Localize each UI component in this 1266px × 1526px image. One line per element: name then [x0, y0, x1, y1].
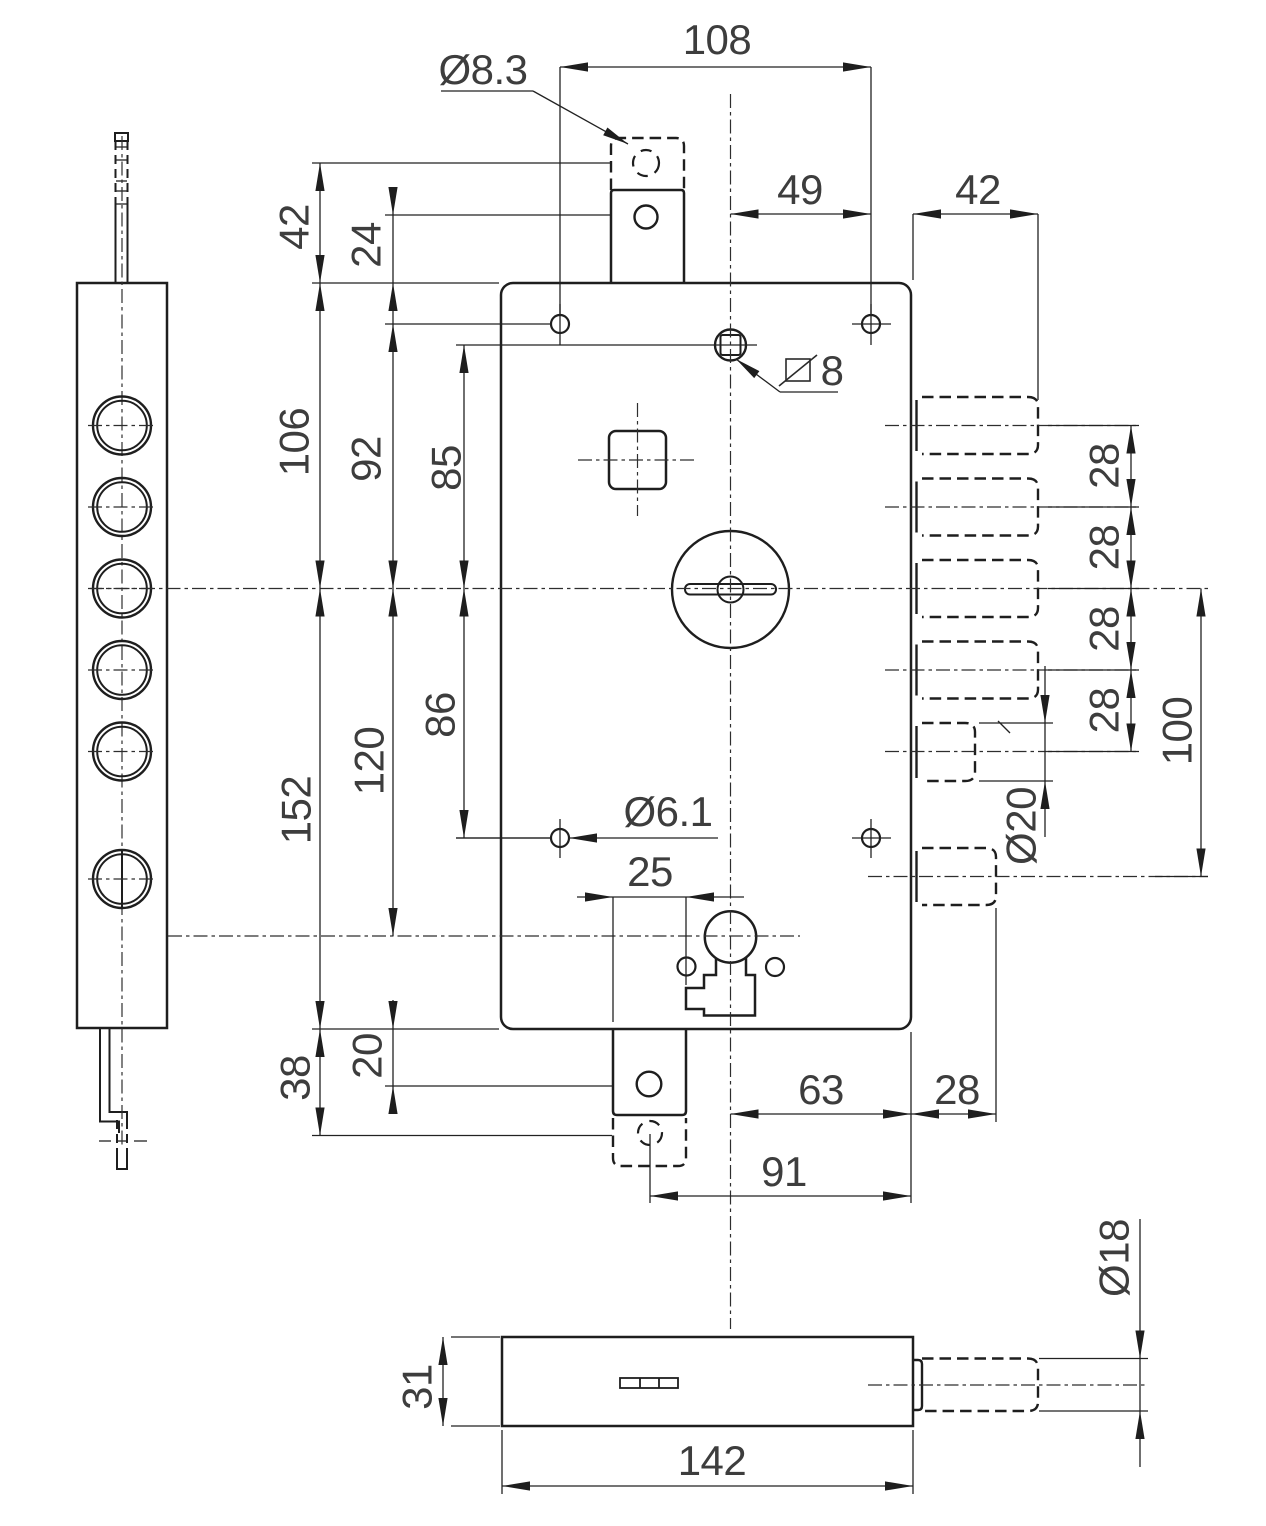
faceplate bolt circle 1: [93, 397, 151, 455]
svg-text:28: 28: [1081, 688, 1128, 734]
faceplate top rod cap: [115, 133, 128, 141]
svg-text:31: 31: [394, 1364, 441, 1410]
dimension 28 column: dimension line: [1130, 426, 1132, 752]
screw hole bottom-left: [551, 829, 569, 847]
bottom view bolt rod extension lines: [1039, 1358, 1148, 1360]
dimension 20: extension line: [385, 1085, 612, 1087]
bolt 5 chamfer tick: [998, 721, 1010, 733]
dimension 24/92/120 dimension line: [392, 187, 394, 936]
faceplate bottom rod crosshair: [99, 1140, 111, 1142]
label square 8 symbol: [786, 359, 810, 381]
faceplate bolt circle 5 crosshair: [88, 751, 156, 753]
dimension 86: extension line: [456, 837, 551, 839]
dimension 49: dimension line: [731, 213, 872, 215]
spindle follower hole: [715, 330, 746, 361]
faceplate side view plate: [77, 283, 167, 1028]
faceplate bolt circle 1 crosshair: [88, 425, 156, 427]
faceplate bolt circle 5: [93, 723, 151, 781]
faceplate centerline vertical: [121, 136, 123, 1146]
svg-text:49: 49: [777, 166, 823, 213]
svg-text:152: 152: [273, 776, 320, 845]
dimension 28 bottom: dimension line: [911, 1113, 996, 1115]
keyhole side hole right: [766, 958, 784, 976]
hub center circle: [718, 577, 744, 603]
svg-text:Ø20: Ø20: [998, 787, 1045, 865]
dimension 38: extension line and arrow: [312, 1135, 612, 1137]
dimension 152: arrows at body bottom: [315, 1001, 324, 1029]
faceplate bolt circle 4 crosshair: [88, 669, 156, 671]
bolt 3 (hidden): [922, 560, 1038, 617]
top tab hole: [635, 206, 658, 229]
dimension 142: dimension line: [502, 1485, 913, 1487]
svg-text:100: 100: [1154, 697, 1201, 766]
faceplate bottom rod end cap: [117, 1156, 127, 1169]
lock body outline: [501, 283, 911, 1029]
faceplate top rod solid part: [115, 199, 117, 283]
bolt 2 (hidden) visible edge: [915, 482, 917, 533]
svg-text:42: 42: [271, 204, 318, 250]
bottom tab hole: [637, 1072, 662, 1097]
dimension 42 left: extension lines: [312, 162, 610, 164]
dimension diameter 20: dimension line with outside arrows: [1044, 666, 1046, 837]
latch bolt bottom (hidden) visible edge: [915, 851, 917, 902]
svg-text:Ø8.3: Ø8.3: [438, 46, 527, 93]
bolt 1 (hidden): [922, 397, 1038, 454]
euro cylinder keyhole stem: [686, 958, 755, 1016]
bolt 5 short (hidden): [922, 723, 975, 781]
svg-text:Ø18: Ø18: [1091, 1219, 1138, 1297]
euro cylinder keyhole circle: [705, 911, 756, 962]
svg-text:85: 85: [423, 445, 470, 491]
screw hole top-right: [862, 315, 880, 333]
svg-text:20: 20: [344, 1033, 391, 1079]
svg-text:91: 91: [761, 1148, 807, 1195]
dimension 42 right: extension line: [1037, 214, 1039, 400]
dimension 25: dimension line with outside arrows: [577, 896, 744, 898]
svg-text:142: 142: [678, 1437, 747, 1484]
svg-text:Ø6.1: Ø6.1: [623, 788, 712, 835]
faceplate bolt circle 4: [93, 641, 151, 699]
svg-text:28: 28: [1081, 525, 1128, 571]
dimension 120: bottom arrow: [388, 908, 397, 936]
bottom tab hidden hole: [638, 1121, 662, 1145]
bottom view bolt hidden body: [922, 1359, 1038, 1412]
keyhole horizontal centerline: [168, 935, 800, 937]
bolt 5 centerline: [885, 751, 1139, 753]
dimension 31: dimension line: [442, 1337, 444, 1426]
bolt 4 centerline: [885, 669, 1139, 671]
bolt 1 centerline: [885, 425, 1139, 427]
bottom view centerline: [868, 1384, 1145, 1386]
dimension 63: dimension line: [731, 1113, 912, 1115]
latch bolt centerline: [868, 876, 1208, 878]
bolt 2 (hidden): [922, 479, 1038, 536]
dimension 63/28: extension lines: [910, 1032, 912, 1203]
faceplate top rod hidden segments: [115, 141, 117, 199]
bolt 3 (hidden) visible edge: [915, 563, 917, 614]
bottom view latch slot: [620, 1378, 678, 1388]
dimension 31: extension lines: [451, 1336, 500, 1338]
dimension 106: arrows at centerline: [315, 561, 324, 589]
faceplate bolt circle 3 crosshair: [88, 588, 156, 590]
leader square 8: [780, 391, 838, 393]
svg-text:28: 28: [934, 1066, 980, 1113]
main horizontal centerline: [90, 588, 1208, 590]
bolt 4 (hidden): [922, 642, 1038, 699]
faceplate bolt circle 3: [93, 560, 151, 618]
svg-text:25: 25: [627, 848, 673, 895]
dimension 42 right: dimension line: [913, 213, 1038, 215]
dimension 86: bottom arrow: [459, 810, 468, 838]
dimension 24: outside arrows: [388, 187, 397, 215]
dimension 85: arrows: [459, 345, 468, 373]
dimension 42 left: dimension line: [319, 163, 321, 1136]
screw hole bottom-right: [862, 829, 880, 847]
svg-text:120: 120: [346, 727, 393, 796]
square fixing hole: [609, 431, 666, 489]
bolt 5 short (hidden) visible edge: [915, 726, 917, 778]
keyhole side hole left: [678, 958, 696, 976]
dimension 85: dimension line: [463, 345, 465, 838]
dimension 20: dimension line and outside arrows: [392, 1000, 394, 1114]
dimension diameter 20: extension lines: [979, 722, 1053, 724]
dimension 25: extension lines: [612, 897, 614, 1022]
dimension 108: extension lines: [559, 67, 561, 315]
latch bolt bottom (hidden): [922, 848, 996, 905]
dimension 108: dimension line: [560, 66, 871, 68]
svg-text:63: 63: [798, 1066, 844, 1113]
dimension 142: extension lines: [501, 1430, 503, 1494]
faceplate bottom rod hidden segments: [116, 1120, 118, 1156]
bolt 4 (hidden) visible edge: [915, 645, 917, 696]
svg-text:42: 42: [955, 166, 1001, 213]
dimension 24: extension line: [385, 214, 610, 216]
dimension 91: dimension line: [650, 1195, 911, 1197]
faceplate cylinder circle crosshair: [88, 878, 156, 880]
svg-text:8: 8: [821, 347, 844, 394]
dimension 100: dimension line: [1200, 589, 1202, 877]
spindle crosshair / 85 extension line: [456, 344, 757, 346]
hub slot: [685, 584, 776, 595]
faceplate cylinder screw circle: [93, 850, 151, 908]
top tab hidden extension: [611, 138, 684, 190]
svg-text:86: 86: [417, 692, 464, 738]
dimension 152: extension line at body bottom: [312, 1028, 499, 1030]
extension lines at bolt centerlines for 28 dims: [1048, 425, 1139, 427]
leader diameter 6.1: [456, 837, 551, 839]
bottom view bolt face: [913, 1360, 922, 1410]
dimension 92: extension line: [385, 323, 552, 325]
dimension 92: arrows: [388, 324, 397, 352]
faceplate bolt circle 2 crosshair: [88, 506, 156, 508]
faceplate bottom hook: [100, 1029, 119, 1133]
top mounting tab: [611, 190, 684, 283]
dimension diameter 18: dimension line with outside arrows: [1139, 1219, 1141, 1467]
svg-text:28: 28: [1081, 606, 1128, 652]
main vertical centerline: [730, 94, 732, 1329]
square hole crosshair horizontal: [578, 459, 697, 461]
bolt 1 (hidden) visible edge: [915, 400, 917, 451]
svg-text:28: 28: [1081, 443, 1128, 489]
bottom view case: [502, 1337, 913, 1426]
svg-text:38: 38: [272, 1055, 319, 1101]
svg-text:92: 92: [343, 436, 390, 482]
svg-text:24: 24: [343, 222, 390, 268]
svg-text:108: 108: [683, 16, 752, 63]
screw hole top-left: [551, 315, 569, 333]
faceplate bolt circle 2: [93, 478, 151, 536]
hub circle: [672, 531, 789, 648]
dimension 91: extension line: [649, 1134, 651, 1203]
bottom mounting tab: [613, 1029, 686, 1115]
svg-text:106: 106: [271, 408, 318, 477]
leader diameter 8.3: [441, 90, 533, 92]
top tab hidden hole: [633, 150, 659, 176]
bottom tab hidden extension: [613, 1118, 686, 1166]
bolt 2 centerline: [885, 506, 1139, 508]
square hole crosshair vertical: [637, 403, 639, 516]
